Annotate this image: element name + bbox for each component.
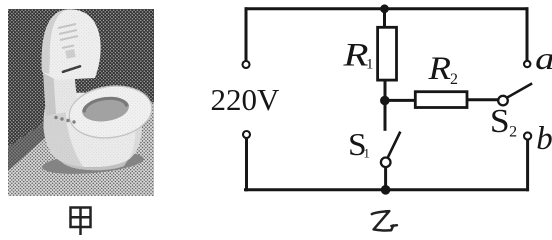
svg-text:R: R xyxy=(342,38,368,74)
svg-text:2: 2 xyxy=(509,124,517,141)
svg-text:R: R xyxy=(427,51,451,87)
svg-text:S: S xyxy=(490,103,510,140)
svg-text:1: 1 xyxy=(363,146,370,161)
svg-text:a: a xyxy=(535,40,552,76)
svg-text:b: b xyxy=(536,121,552,157)
svg-text:220V: 220V xyxy=(211,82,281,117)
svg-text:2: 2 xyxy=(450,71,458,88)
svg-text:1: 1 xyxy=(366,57,374,73)
